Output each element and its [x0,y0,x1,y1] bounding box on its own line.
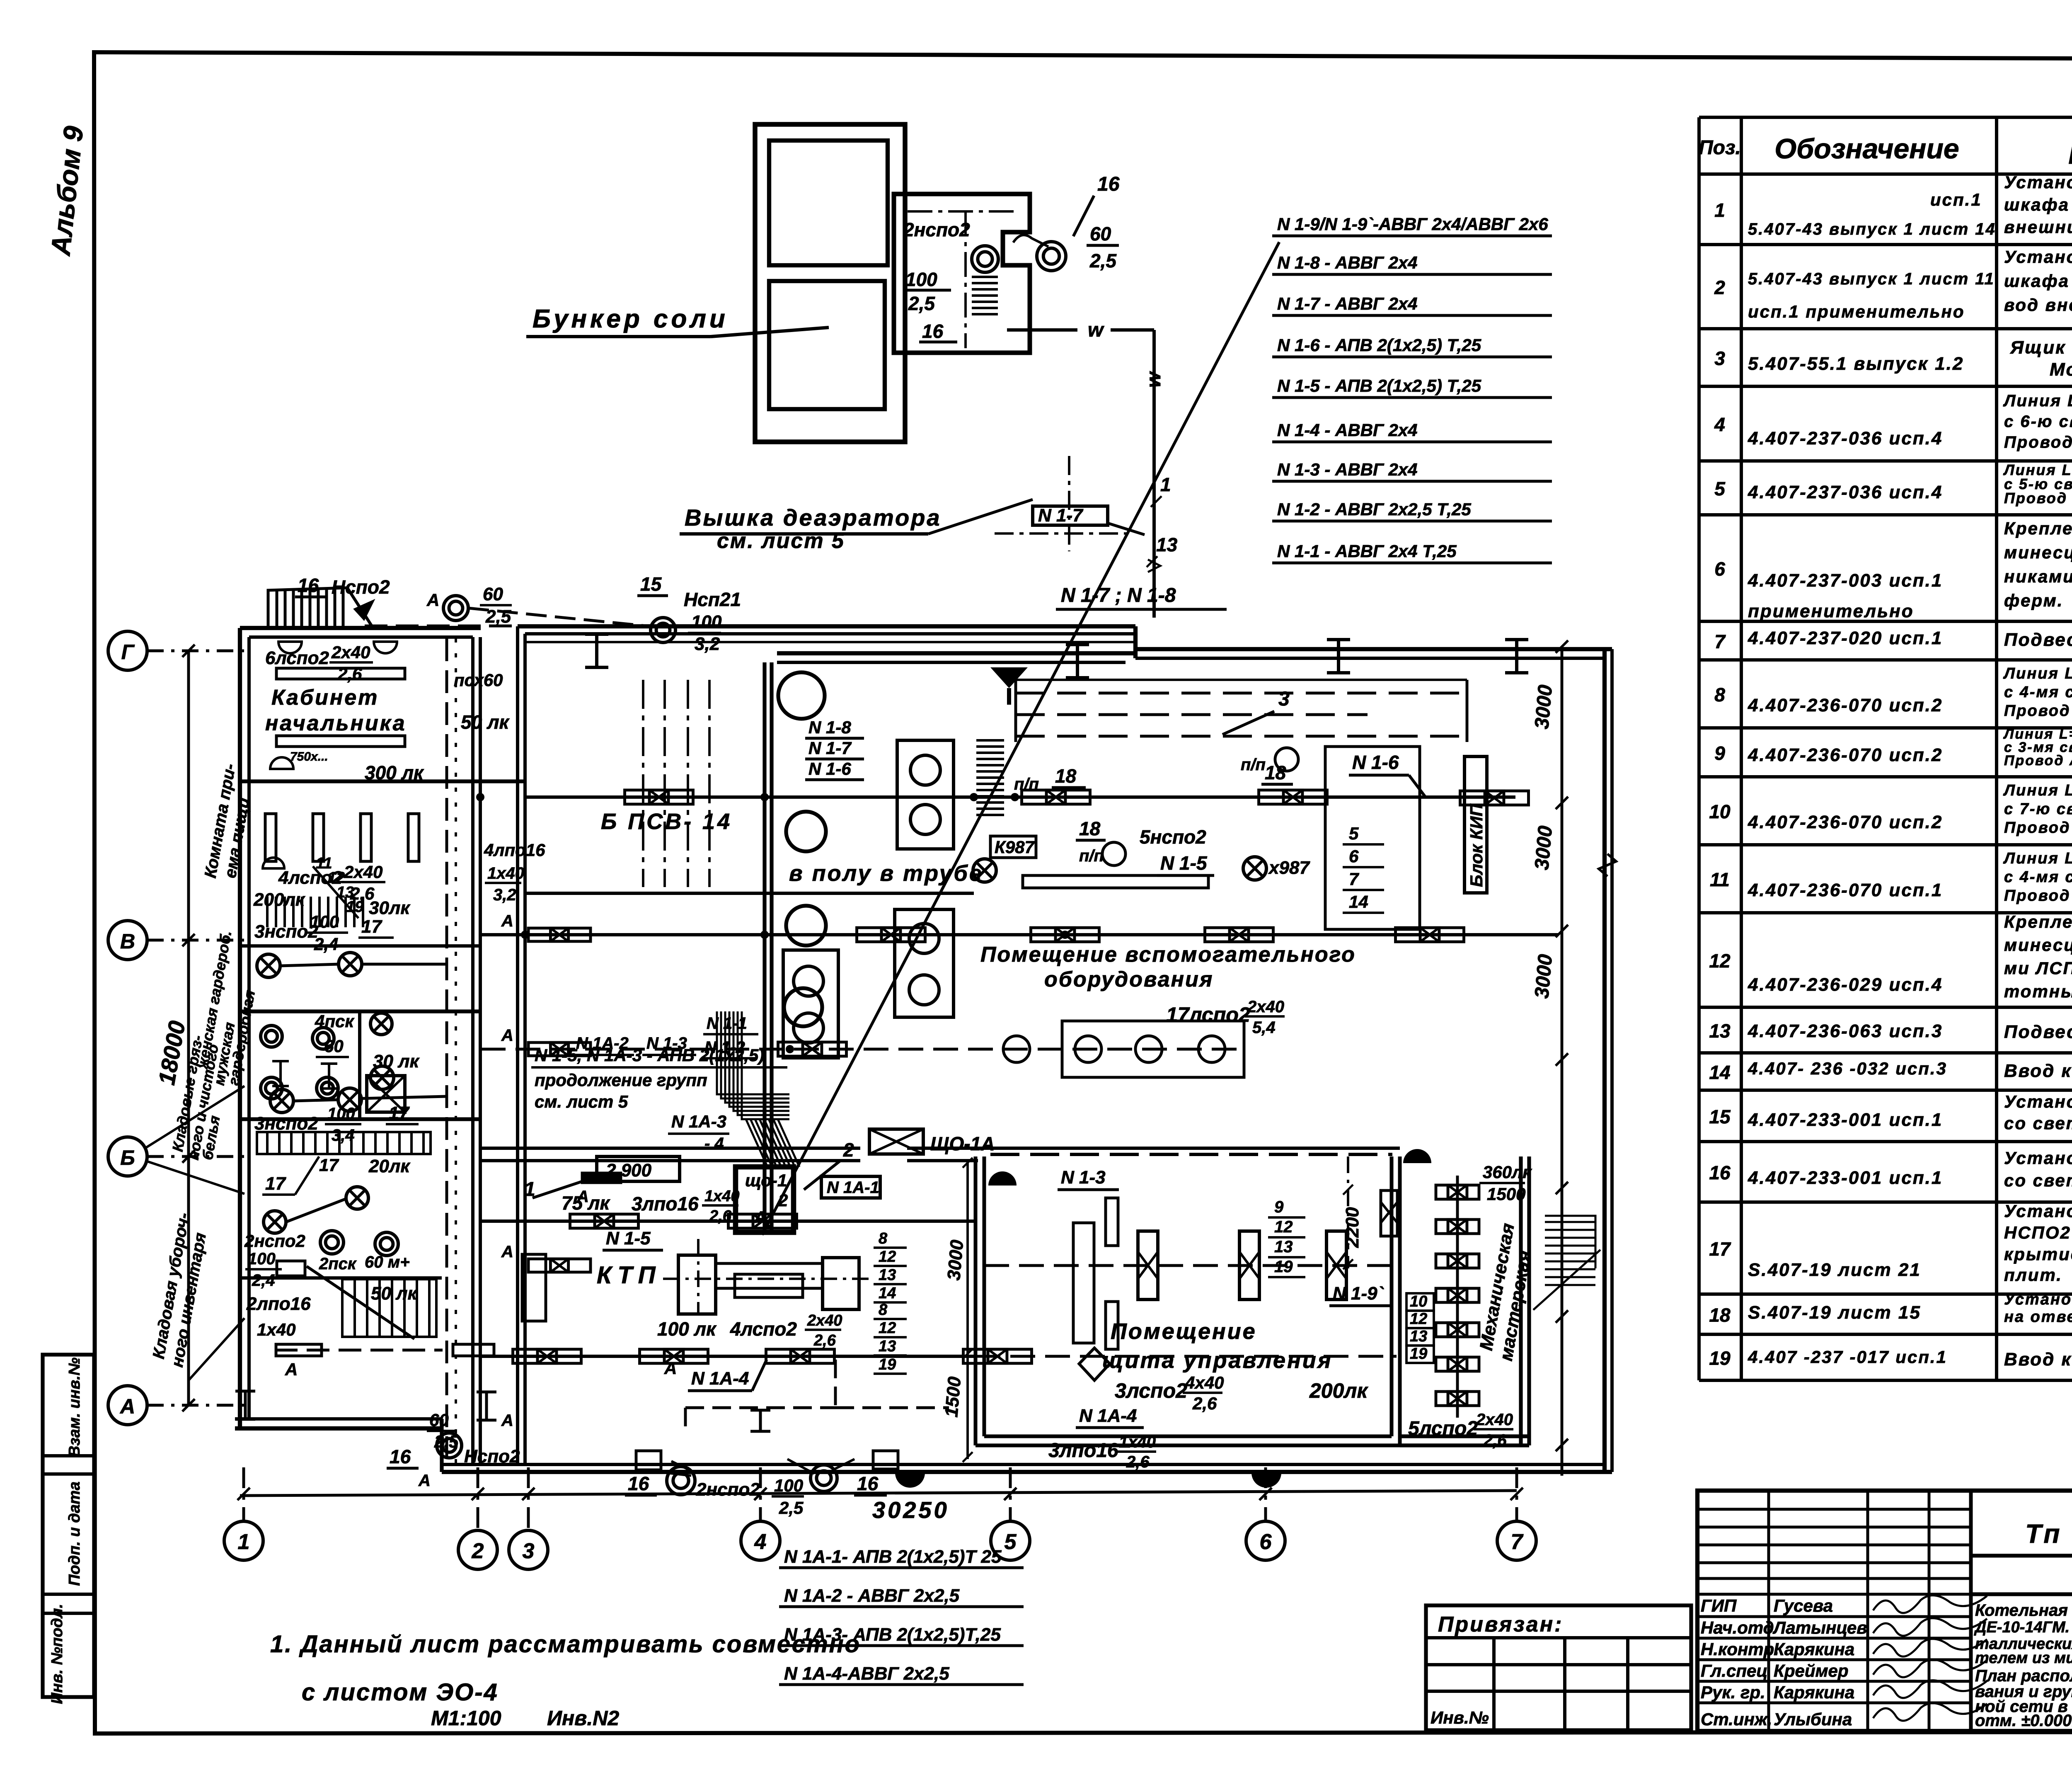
axis bubble А [108,1386,147,1425]
svg-text:N 1-6: N 1-6 [1352,752,1399,773]
svg-text:ферм.: ферм. [2004,591,2063,610]
black fill lamps in hall [988,1171,1017,1186]
svg-text:4.407-236-029 исп.4: 4.407-236-029 исп.4 [1748,975,1943,995]
svg-text:10: 10 [1410,1293,1427,1310]
svg-text:Нспо2: Нспо2 [464,1446,520,1467]
svg-text:N 1А-4: N 1А-4 [691,1368,749,1389]
svg-text:30 лк: 30 лк [373,1051,420,1072]
svg-text:13: 13 [1709,1020,1731,1042]
svg-text:на ответвительной коробке.: на ответвительной коробке. [2004,1308,2072,1326]
svg-text:13: 13 [879,1338,896,1355]
svg-text:минесцентными светильника-: минесцентными светильника- [2004,935,2072,955]
svg-text:15: 15 [1709,1106,1731,1127]
svg-text:Линия L=24м из коробов кл-1: Линия L=24м из коробов кл-1 [2003,392,2072,410]
equipment rect center [1325,747,1420,929]
right stairs hatch [1533,1216,1600,1310]
svg-text:1х40: 1х40 [1119,1433,1156,1451]
svg-text:2: 2 [778,1190,788,1210]
svg-text:що-1: що-1 [745,1171,787,1190]
svg-text:18: 18 [1079,818,1101,839]
svg-text:2,6: 2,6 [813,1332,836,1349]
external lamp bottom-left [437,1433,462,1458]
K987 labels [990,836,1036,858]
east wall [1602,649,1607,1472]
svg-text:10: 10 [1709,801,1731,822]
svg-text:2: 2 [472,1539,484,1563]
svg-text:Провод АПВ 2(1х2,5).: Провод АПВ 2(1х2,5). [2004,433,2072,451]
SCHO-1 board room [736,1167,794,1232]
svg-text:w: w [1088,319,1104,341]
svg-text:см. лист 5: см. лист 5 [717,529,845,553]
svg-text:N 1-7 - АВВГ 2х4: N 1-7 - АВВГ 2х4 [1277,294,1418,313]
svg-text:4: 4 [754,1530,767,1554]
svg-text:S.407-19 лист 15: S.407-19 лист 15 [1748,1302,1921,1323]
svg-text:N 1-5 - АПВ 2(1х2,5) Т,25: N 1-5 - АПВ 2(1х2,5) Т,25 [1277,376,1481,395]
svg-text:750х...: 750х... [290,750,328,764]
svg-text:100: 100 [248,1250,276,1268]
SCHO-1A crossed box [869,1129,923,1154]
svg-text:шкафа АОУ 8500 на стене. Под-: шкафа АОУ 8500 на стене. Под- [2004,271,2072,291]
svg-text:А: А [418,1472,431,1490]
axis bubble Б [108,1137,147,1176]
svg-text:2,5: 2,5 [908,293,935,314]
svg-text:16: 16 [390,1446,411,1467]
svg-text:продолжение групп: продолжение групп [535,1070,707,1090]
svg-text:60: 60 [429,1410,449,1430]
svg-text:w: w [1143,371,1165,388]
I-beam posts washroom [272,1061,289,1086]
svg-text:В: В [120,930,135,953]
svg-text:16: 16 [857,1473,879,1494]
svg-text:360лк: 360лк [1483,1162,1532,1182]
svg-text:N 1-9`: N 1-9` [1333,1283,1385,1304]
svg-text:13: 13 [1156,534,1178,555]
svg-text:4.407-236-070 исп.2: 4.407-236-070 исп.2 [1748,812,1943,832]
svg-text:14: 14 [1709,1062,1730,1083]
svg-text:Вышка деаэратора: Вышка деаэратора [685,504,942,531]
svg-text:4х40: 4х40 [1185,1373,1224,1392]
svg-text:8: 8 [879,1301,888,1319]
svg-text:18: 18 [1055,765,1077,787]
svg-text:Взам. инв.№: Взам. инв.№ [66,1358,83,1457]
east part top wall [1135,647,1612,651]
svg-text:4лпо16: 4лпо16 [484,840,545,860]
svg-text:Карякина: Карякина [1774,1639,1854,1659]
svg-text:щита управления: щита управления [1102,1348,1333,1373]
svg-text:А: А [501,1243,513,1261]
office room2 fixtures [265,814,276,861]
svg-text:Б ПСВ- 14: Б ПСВ- 14 [601,809,732,834]
right dim line with 3000 labels [1561,647,1564,1476]
axis bubble 2 [458,1530,497,1569]
svg-text:Линия L=6м из коробов кл-1: Линия L=6м из коробов кл-1 [2003,850,2072,867]
svg-text:S.407-19 лист 21: S.407-19 лист 21 [1748,1260,1921,1280]
svg-text:N 1-6 - АПВ 2(1х2,5) Т,25: N 1-6 - АПВ 2(1х2,5) Т,25 [1277,335,1481,355]
title block outer [1697,1491,2072,1731]
vertical lum at control room right wall [1381,1190,1397,1236]
svg-text:4.407-233-001 исп.1: 4.407-233-001 исп.1 [1748,1168,1943,1188]
svg-text:N 1-3: N 1-3 [1061,1167,1106,1188]
svg-text:2,5: 2,5 [434,1432,459,1451]
svg-text:100: 100 [310,912,339,931]
svg-text:7: 7 [1714,631,1726,652]
svg-text:6: 6 [1349,846,1359,866]
svg-text:внешних проводников сверху: внешних проводников сверху [2004,217,2072,237]
filled funnel mark top [990,667,1028,705]
svg-text:А: А [664,1358,677,1378]
svg-text:2,4: 2,4 [252,1271,275,1290]
svg-text:Установка светильника: Установка светильника [2004,1201,2072,1221]
svg-text:применительно: применительно [1748,601,1914,621]
svg-text:19: 19 [1709,1348,1731,1369]
salt bunker outline [755,124,905,442]
svg-text:вод внешних проводников сверху: вод внешних проводников сверху [2004,295,2072,315]
svg-text:Нсп21: Нсп21 [684,589,741,610]
dashed drop to bottom [834,1360,837,1408]
svg-text:17лспо2: 17лспо2 [1166,1003,1250,1026]
axis bubble 4 [741,1521,780,1560]
svg-text:5,4: 5,4 [1252,1018,1276,1037]
svg-text:17: 17 [361,916,382,937]
svg-text:2пск: 2пск [319,1255,357,1273]
axis bubble 7 [1497,1521,1536,1560]
svg-text:3,2: 3,2 [493,886,516,904]
svg-text:5: 5 [1714,478,1726,499]
svg-text:2,6: 2,6 [1126,1453,1150,1471]
svg-text:2,5: 2,5 [485,606,511,627]
svg-text:М1:100: М1:100 [431,1707,501,1730]
svg-text:крытием из пустотных: крытием из пустотных [2004,1244,2072,1264]
svg-text:2,4: 2,4 [314,934,338,954]
svg-text:5лспо2: 5лспо2 [1408,1418,1478,1440]
svg-text:Гл.спец: Гл.спец [1701,1661,1767,1680]
svg-text:17: 17 [265,1173,286,1194]
svg-text:Котельная с 4 котлами: Котельная с 4 котлами [1975,1601,2072,1620]
svg-text:псх60: псх60 [454,670,503,690]
document number cell [1971,1554,2072,1557]
svg-text:N 1А-4-АВВГ 2х2,5: N 1А-4-АВВГ 2х2,5 [784,1663,949,1684]
svg-text:11: 11 [1710,869,1730,890]
corridor walls [471,637,474,1464]
svg-text:начальника: начальника [265,711,407,735]
svg-text:А: А [119,1395,135,1418]
svg-text:- 4: - 4 [704,1135,724,1153]
axis4 column line [762,662,766,1232]
svg-text:4.407-237-036 исп.4: 4.407-237-036 исп.4 [1748,428,1943,449]
office top wall [240,626,481,630]
svg-text:2: 2 [1714,277,1725,298]
washroom lamps lower [346,1187,368,1209]
svg-text:2х40: 2х40 [344,862,382,882]
svg-text:19: 19 [1274,1258,1293,1276]
svg-text:телем из минераловатных плит.: телем из минераловатных плит. [1975,1649,2072,1667]
I-beam mark above bottom wall [750,1410,770,1431]
svg-text:1: 1 [1714,199,1725,221]
svg-text:5.407-43 выпуск 1 лист 14: 5.407-43 выпуск 1 лист 14 [1748,220,1996,238]
svg-text:Ввод кабелей в короб.: Ввод кабелей в короб. [2004,1349,2072,1370]
svg-text:Г: Г [121,640,135,664]
svg-text:14: 14 [879,1285,896,1302]
svg-text:5: 5 [1349,824,1359,843]
svg-text:6: 6 [1260,1530,1272,1554]
KTP transformer equipment [678,1255,716,1314]
svg-text:Б: Б [120,1146,135,1169]
svg-text:N 1А-3- АПВ 2(1х2,5)Т,25: N 1А-3- АПВ 2(1х2,5)Т,25 [784,1624,1001,1645]
svg-text:Обозначение: Обозначение [1774,133,1959,165]
svg-text:4.407-236-063 исп.3: 4.407-236-063 исп.3 [1748,1021,1943,1041]
diamond fixture [1079,1348,1110,1380]
break mark on extension line [1599,854,1616,876]
control room fixtures [1138,1231,1158,1300]
roof canopy hatch above office [268,588,373,628]
svg-text:16: 16 [298,575,319,596]
svg-text:Провод АПВ 2(1х2,5) (ЛПО16): Провод АПВ 2(1х2,5) (ЛПО16) [2004,702,2072,720]
group line y3272 [481,1355,975,1358]
svg-text:шкафа ПР11 на стене. Подвод: шкафа ПР11 на стене. Подвод [2004,195,2072,214]
annex interior dash-dot [908,210,1015,213]
svg-text:Подвес: Подвес [2004,630,2072,650]
svg-text:4: 4 [1714,414,1725,435]
svg-text:4.407-236-070 исп.1: 4.407-236-070 исп.1 [1748,880,1943,900]
axis bubble В [108,921,147,960]
svg-text:с 4-мя светильниками ЛСПО2.: с 4-мя светильниками ЛСПО2. [2004,868,2072,886]
svg-text:60 м+: 60 м+ [365,1253,410,1271]
svg-text:никами лспо2 на подвесе вдоль: никами лспо2 на подвесе вдоль [2004,567,2072,586]
svg-text:3000: 3000 [1531,825,1556,871]
svg-text:13: 13 [1274,1238,1293,1256]
lower office: 3nspo2 row [270,1089,293,1113]
svg-text:Ст.инж.: Ст.инж. [1701,1709,1772,1729]
svg-text:3000: 3000 [944,1239,967,1281]
svg-text:7: 7 [1511,1530,1524,1554]
svg-text:100 лк: 100 лк [657,1318,717,1340]
svg-text:5нспо2: 5нспо2 [1140,826,1206,848]
svg-text:4.407- 236 -032 исп.3: 4.407- 236 -032 исп.3 [1748,1059,1947,1078]
svg-text:20лк: 20лк [368,1156,411,1176]
svg-text:3,2: 3,2 [695,634,720,654]
svg-text:18: 18 [1709,1304,1731,1326]
N1A-1 box [821,1176,880,1198]
workshop right wall [1519,1156,1523,1445]
svg-text:12: 12 [879,1319,896,1337]
svg-text:N 1-6: N 1-6 [808,759,851,778]
svg-text:п/п: п/п [1079,847,1104,865]
svg-text:30лк: 30лк [369,898,411,918]
svg-text:N 1-1 - АВВГ 2х4 Т,25: N 1-1 - АВВГ 2х4 Т,25 [1277,541,1457,561]
svg-text:Карякина: Карякина [1774,1683,1854,1702]
boiler feed dash-dot lines [642,680,644,887]
svg-text:N 1А-1- АПВ 2(1х2,5)Т 25: N 1А-1- АПВ 2(1х2,5)Т 25 [784,1547,1002,1567]
svg-text:Установка кронштейна У116: Установка кронштейна У116 [2004,1148,2072,1168]
svg-text:Латынцев: Латынцев [1772,1618,1867,1637]
svg-text:Нспо2: Нспо2 [332,576,390,598]
svg-text:НСПО2 на крюке под пере-: НСПО2 на крюке под пере- [2004,1223,2072,1242]
svg-text:1х40: 1х40 [487,864,524,883]
svg-text:3: 3 [523,1539,535,1563]
svg-text:5.407-55.1 выпуск 1.2: 5.407-55.1 выпуск 1.2 [1748,354,1964,374]
svg-text:Креймер: Креймер [1774,1661,1849,1680]
svg-text:12: 12 [1410,1310,1427,1328]
svg-text:2200: 2200 [1342,1207,1363,1248]
svg-text:5: 5 [1005,1530,1017,1554]
svg-text:Инв.№: Инв.№ [1431,1708,1489,1727]
office partitions [240,779,525,783]
svg-text:ЩО-1А: ЩО-1А [930,1133,995,1154]
svg-text:со светильником НСПО2.: со светильником НСПО2. [2004,1171,2072,1190]
N1-7 callout box [1033,506,1108,525]
svg-text:8: 8 [879,1230,888,1247]
svg-text:Установка кронштейна У116: Установка кронштейна У116 [2004,1092,2072,1111]
Blok KIP [1464,756,1487,893]
svg-text:12: 12 [1274,1218,1293,1236]
svg-text:Инв. №подл.: Инв. №подл. [48,1604,66,1704]
I-beam symbols bottom office [235,1391,255,1419]
bottom wall [442,1470,1612,1474]
svg-text:2.900: 2.900 [605,1160,652,1181]
equipment boxes with circle pairs [897,740,954,849]
svg-text:8: 8 [1714,684,1725,706]
washroom fixtures [261,1026,282,1047]
svg-text:А: А [426,590,439,610]
svg-text:4лспо2: 4лспо2 [730,1318,797,1340]
wire bundle into SCHO-1 [746,1119,799,1167]
circles row in box [1062,1021,1244,1077]
svg-text:50 лк: 50 лк [461,711,510,733]
tall thin fixtures [1106,1198,1118,1246]
svg-text:2х40: 2х40 [1476,1411,1513,1429]
svg-text:Рук. гр.: Рук. гр. [1701,1683,1765,1702]
svg-text:14: 14 [1349,892,1368,912]
office lamps row [257,954,280,977]
svg-text:N 1-5: N 1-5 [1160,852,1208,874]
svg-text:2лпо16: 2лпо16 [246,1294,311,1314]
svg-text:3000: 3000 [1531,684,1556,730]
leader lines from left margin labels [145,1086,244,1148]
dense wire bundle to SCHO [717,1011,789,1119]
left vertical dimension line [187,651,190,1405]
dashed platform top [1016,692,1467,695]
svg-text:А: А [501,1411,513,1430]
svg-text:Провод АПВ 2(1х2,5): Провод АПВ 2(1х2,5) [2004,753,2072,769]
svg-text:30250: 30250 [872,1497,949,1523]
svg-text:N 1-3 - АВВГ 2х4: N 1-3 - АВВГ 2х4 [1277,460,1418,479]
svg-text:100: 100 [774,1476,803,1495]
control room walls [975,1156,1400,1445]
svg-text:2х40: 2х40 [331,642,370,662]
svg-text:100: 100 [327,1105,355,1123]
svg-text:Линия L=12м из коробов кл-1: Линия L=12м из коробов кл-1 [2003,665,2072,682]
W cable run [1007,328,1077,332]
svg-text:Монтажный чертеж.: Монтажный чертеж. [2050,359,2072,380]
office stairs [267,897,363,927]
svg-text:А: А [285,1360,298,1379]
svg-text:ми ЛСПО2 на подвесе к пус-: ми ЛСПО2 на подвесе к пус- [2004,958,2072,978]
dashed line with bar fixtures y3257 [275,1349,443,1352]
group line A (y1923) [526,795,1515,799]
svg-text:2,5: 2,5 [1089,250,1117,272]
svg-text:исп.1 применительно: исп.1 применительно [1748,302,1965,321]
svg-text:4пск: 4пск [315,1011,354,1031]
svg-text:19: 19 [1410,1345,1427,1363]
svg-text:6: 6 [1714,558,1725,580]
svg-text:2,5: 2,5 [779,1498,804,1518]
svg-text:4.407 -237 -017 исп.1: 4.407 -237 -017 исп.1 [1748,1347,1947,1367]
svg-text:4лспо2: 4лспо2 [278,868,342,888]
group dashed line y2531 [481,1048,1244,1051]
small boxes on bottom wall [636,1451,661,1470]
svg-text:х987: х987 [1268,858,1310,878]
svg-text:3лпо16: 3лпо16 [632,1193,699,1215]
svg-text:с листом ЭО-4: с листом ЭО-4 [302,1679,499,1706]
svg-text:N 1-2 - АВВГ 2х2,5 Т,25: N 1-2 - АВВГ 2х2,5 Т,25 [1277,499,1471,519]
corridor top wall over control room [481,1147,860,1150]
svg-text:Ввод кабелей в короб.: Ввод кабелей в короб. [2004,1061,2072,1081]
svg-text:п/п: п/п [1241,756,1266,774]
svg-text:N 1А-4: N 1А-4 [1079,1406,1137,1426]
svg-text:Наименование: Наименование [2068,138,2072,170]
axis bubble 1 [224,1521,263,1560]
svg-text:13: 13 [879,1266,896,1284]
inner dim 3000/1500 [966,1161,969,1459]
svg-text:60: 60 [324,1036,344,1056]
svg-text:1. Данный лист рассматривать с: 1. Данный лист рассматривать совместно [270,1631,861,1658]
annex lamp 1 [972,246,998,272]
svg-text:1х40: 1х40 [257,1320,295,1339]
svg-text:Тп 903-1-244.87: Тп 903-1-244.87 [2025,1519,2072,1549]
svg-text:со светильником НСП21.: со светильником НСП21. [2004,1113,2072,1133]
svg-text:2нспо2: 2нспо2 [696,1479,760,1500]
svg-text:минесцентными светиль-: минесцентными светиль- [2004,543,2072,562]
leader lines bottom lamps [640,1470,691,1476]
office bottom wall [235,1426,442,1430]
bottom dimension line [244,1491,1517,1496]
axis bubble 3 [509,1530,548,1569]
svg-text:60: 60 [483,584,503,604]
svg-text:Крепление коробов кл с лю-: Крепление коробов кл с лю- [2004,519,2072,538]
svg-text:Установка распределительного: Установка распределительного [2004,172,2072,192]
svg-text:Установка распределительного: Установка распределительного [2004,247,2072,267]
svg-text:Провод АПВ 2(1х2.5).: Провод АПВ 2(1х2.5). [2004,887,2072,904]
svg-text:3лспо2: 3лспо2 [1115,1379,1187,1402]
signatures (squiggles) [1873,1595,1987,1721]
svg-text:оборудования: оборудования [1044,967,1213,992]
group line B (y2255) [481,933,1558,936]
svg-text:15: 15 [640,573,662,595]
svg-text:19: 19 [879,1356,896,1373]
svg-text:с 4-мя светильниками лспо2: с 4-мя светильниками лспо2 [2004,684,2072,701]
svg-text:Ящик серии АТП-0,25 У3: Ящик серии АТП-0,25 У3 [2010,337,2072,358]
hall top wall [518,624,1135,628]
svg-text:КТП: КТП [597,1262,661,1289]
svg-text:4.407-236-070 исп.2: 4.407-236-070 исп.2 [1748,695,1943,715]
svg-text:2нспо2: 2нспо2 [244,1231,305,1251]
svg-text:N 1-9/N 1-9`-АВВГ 2х4/АВВГ 2х6: N 1-9/N 1-9`-АВВГ 2х4/АВВГ 2х6 [1277,214,1548,234]
svg-text:А: А [501,912,513,930]
svg-text:Провод АПВ 2(1х2,5).: Провод АПВ 2(1х2,5). [2004,490,2072,507]
svg-text:N 1А-1: N 1А-1 [827,1178,879,1197]
svg-text:Инв.N2: Инв.N2 [547,1707,619,1730]
svg-text:2нспо2: 2нспо2 [903,219,970,240]
svg-text:Помещение: Помещение [1111,1319,1257,1344]
svg-text:7: 7 [1349,869,1359,889]
svg-text:12: 12 [1709,950,1731,972]
svg-text:12: 12 [879,1248,896,1266]
svg-text:16: 16 [922,320,944,342]
I-beam symbols top [585,634,608,667]
svg-text:с 7-ю светильниками лспо2: с 7-ю светильниками лспо2 [2004,800,2072,818]
svg-text:1х40: 1х40 [704,1188,740,1205]
hall top ledge wall [777,651,1135,655]
